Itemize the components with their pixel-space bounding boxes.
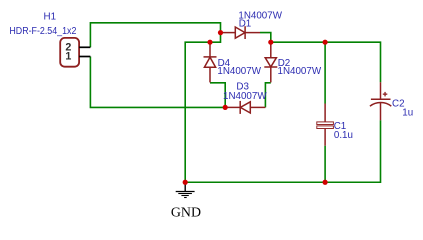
svg-text:1N4007W: 1N4007W	[217, 66, 261, 77]
svg-text:H1: H1	[44, 11, 57, 22]
svg-text:1N4007W: 1N4007W	[278, 66, 322, 77]
svg-text:D1: D1	[239, 18, 252, 29]
svg-text:1u: 1u	[402, 107, 413, 118]
svg-text:1N4007W: 1N4007W	[223, 91, 267, 102]
svg-text:0.1u: 0.1u	[334, 130, 353, 141]
svg-text:HDR-F-2.54_1x2: HDR-F-2.54_1x2	[9, 26, 76, 37]
svg-text:GND: GND	[171, 205, 201, 220]
svg-text:1: 1	[65, 50, 71, 62]
